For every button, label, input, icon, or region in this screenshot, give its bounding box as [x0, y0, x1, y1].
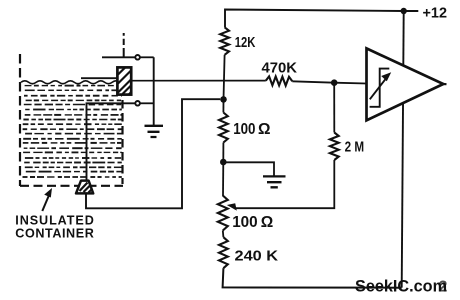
watermark SeekIC.com — [355, 276, 448, 295]
lower contact terminal (open circle) — [135, 101, 140, 106]
wire from bottom electrode around to 100-ohm junction — [86, 99, 220, 208]
label 100 ohm (upper) — [233, 121, 270, 138]
resistor 240K — [219, 237, 228, 268]
svg-text:2: 2 — [439, 279, 448, 296]
wire bottom rail — [223, 268, 402, 288]
op-amp symbol arrowhead — [381, 72, 391, 81]
ground stem wire — [153, 57, 155, 125]
water surface wavy line — [21, 81, 120, 84]
insulated container left wall — [19, 54, 21, 186]
node input junction dot — [331, 79, 338, 86]
node junction dot (12K/100ohm) — [220, 96, 227, 103]
upper contact terminal (open circle) — [135, 55, 140, 60]
centerline (dash-dot) above probe electrode — [123, 33, 125, 58]
bottom electrode (hatched trapezoid) — [76, 181, 93, 194]
wire junction to 100 ohm — [222, 99, 224, 112]
svg-text:240 K: 240 K — [235, 248, 279, 264]
node junction dot (100ohm/ground) — [220, 159, 227, 166]
insulated container right wall — [121, 100, 123, 184]
op-amp output stub — [443, 83, 447, 85]
node +12 junction dot — [401, 8, 407, 14]
op-amp adjustable-threshold symbol — [370, 69, 390, 107]
label 100 ohm (potentiometer) — [232, 214, 273, 231]
svg-text:CONTAINER: CONTAINER — [15, 227, 94, 241]
resistor 12K — [220, 27, 229, 55]
wire 100 ohm to lower junction — [222, 143, 224, 163]
wire from upper terminal to ground stem — [141, 56, 154, 58]
liquid (dashed shading rows) — [23, 86, 122, 177]
wire probe stub to electrode — [81, 77, 118, 79]
probe electrode (hatched box) — [117, 67, 131, 94]
svg-text:Ω: Ω — [258, 121, 271, 138]
ground symbol (probe circuit) — [145, 126, 164, 137]
potentiometer wiper arrow — [227, 203, 237, 210]
svg-text:2 M: 2 M — [345, 140, 365, 156]
svg-text:INSULATED: INSULATED — [15, 213, 94, 227]
wire from bottom electrode up inside container — [87, 103, 135, 180]
svg-text:SeekIC.com: SeekIC.com — [355, 276, 447, 295]
svg-text:470K: 470K — [262, 61, 298, 77]
svg-text:100: 100 — [232, 214, 258, 231]
insulated container bottom wall — [20, 185, 123, 187]
wire junction to ground 2 — [223, 162, 274, 176]
resistor 470K — [266, 76, 293, 85]
op-amp U1 (comparator triangle) — [367, 48, 444, 120]
wire junction to potentiometer — [222, 162, 224, 196]
svg-text:12K: 12K — [235, 35, 256, 51]
ground symbol (divider) — [263, 176, 286, 187]
arrow to container — [42, 188, 52, 211]
svg-text:100: 100 — [233, 121, 255, 138]
resistor 100 ohm — [219, 113, 228, 143]
wire 2M to potentiometer wiper — [234, 160, 334, 208]
wire +12 supply drop to op-amp and down to bottom rail — [402, 11, 404, 288]
wire potentiometer to 240K — [222, 231, 225, 238]
wire +12 top rail — [225, 10, 418, 28]
svg-text:+12: +12 — [423, 5, 448, 22]
resistor 2M — [330, 133, 339, 161]
wire from lower terminal to ground stem — [141, 102, 154, 104]
wire from probe electrode (470K line) — [131, 80, 266, 82]
potentiometer 100 ohm — [218, 196, 228, 231]
wire input junction to 2M — [333, 83, 335, 133]
svg-text:Ω: Ω — [261, 214, 274, 231]
wire 12K to junction — [224, 55, 225, 100]
wire 470K to op-amp input — [292, 81, 366, 83]
upper contact wire — [102, 56, 135, 58]
